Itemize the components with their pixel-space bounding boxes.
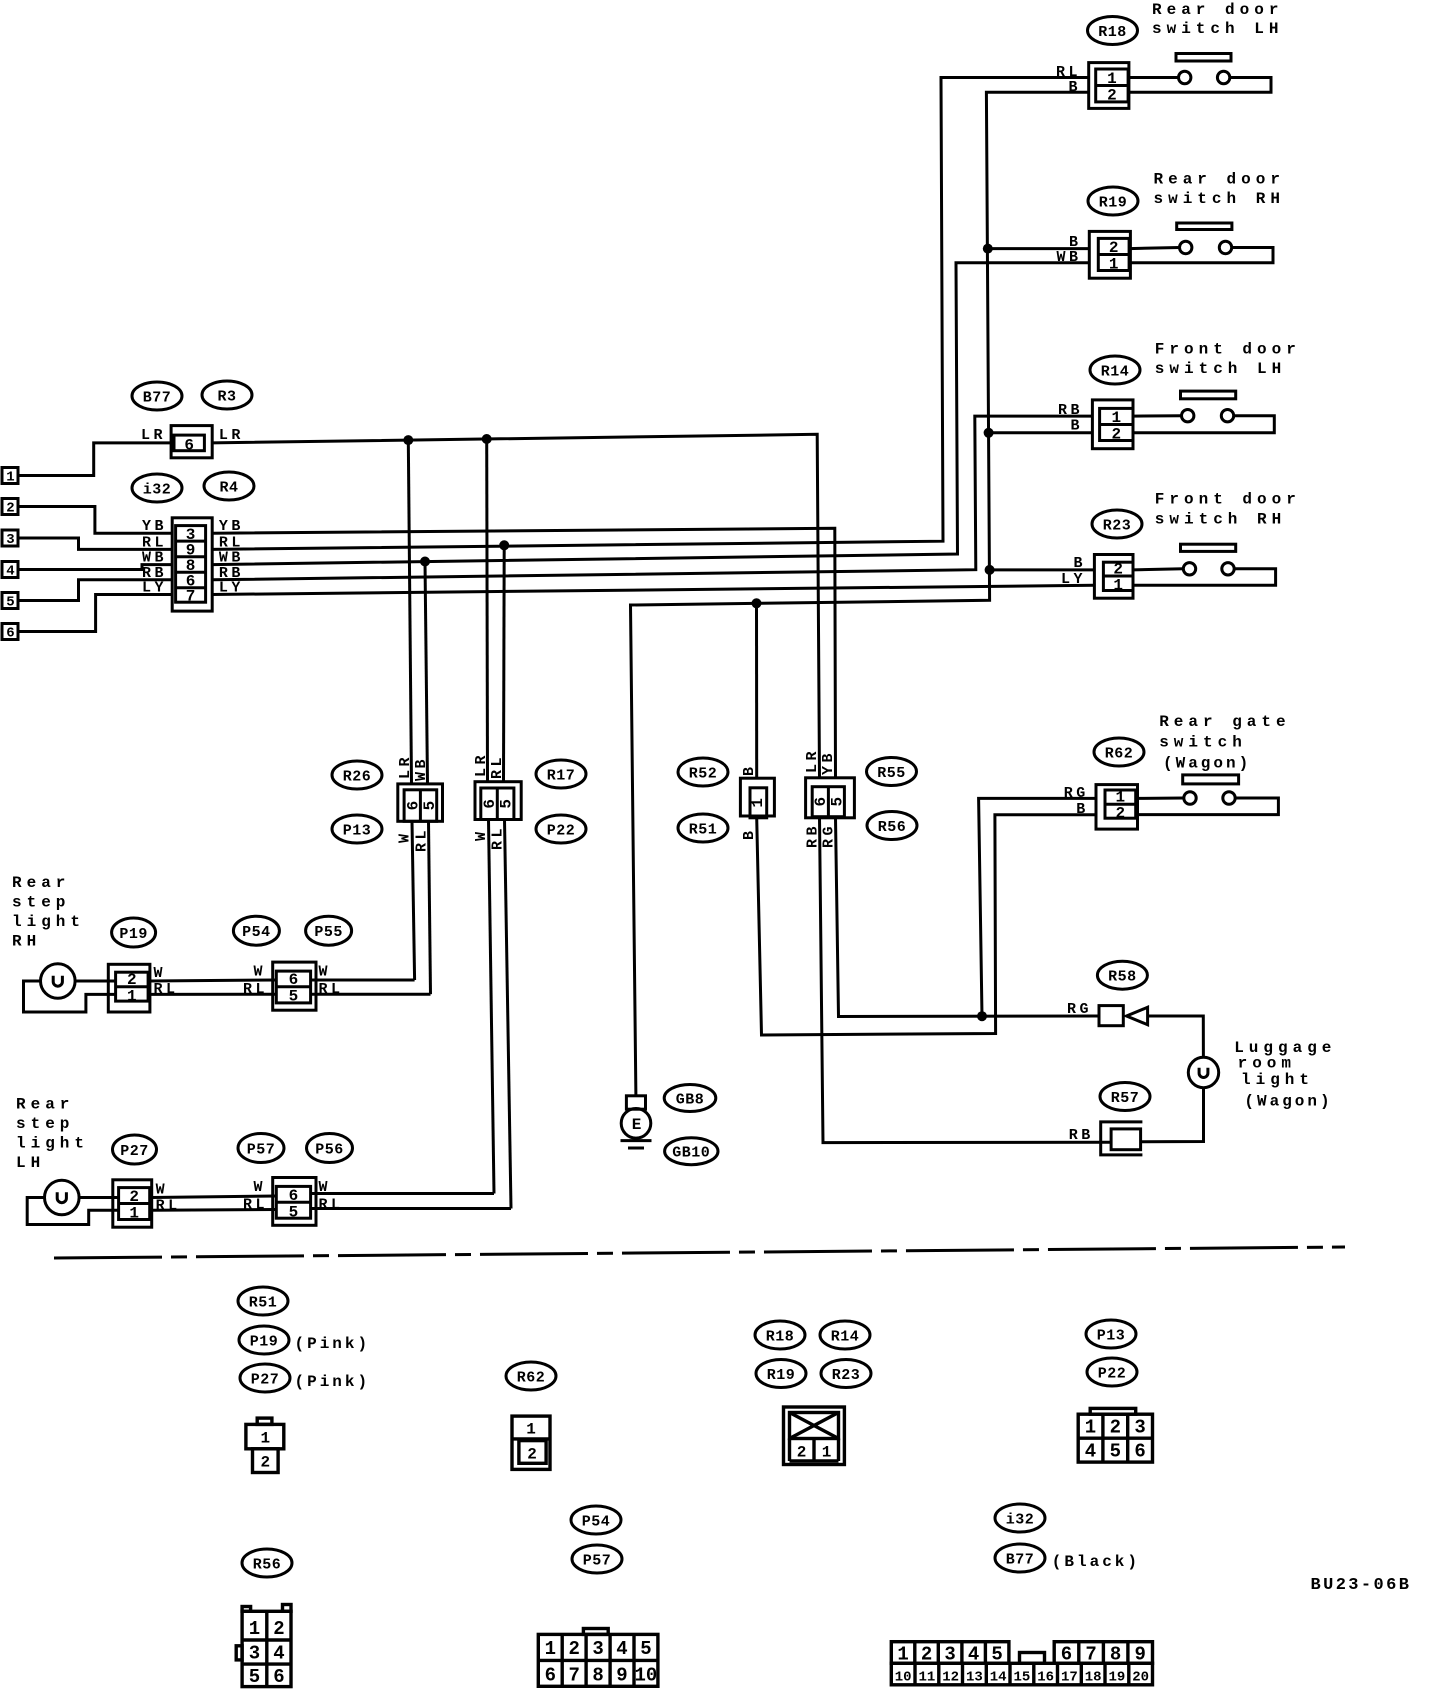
svg-text:R62: R62: [1105, 746, 1134, 763]
connector label oval i32 face label: [995, 1504, 1045, 1532]
connector label oval GB8: [664, 1085, 716, 1112]
connector label oval R18: [1088, 17, 1138, 45]
switch R19 contacts: [1129, 241, 1273, 262]
wire from R58 to luggage lamp: [1148, 1016, 1204, 1057]
connector face P13/P22 6-pin: [1078, 1408, 1152, 1462]
svg-text:R26: R26: [343, 769, 372, 786]
svg-text:R56: R56: [253, 1557, 282, 1574]
svg-text:6: 6: [405, 801, 423, 811]
inline connector i32/R4 body: [172, 518, 212, 611]
svg-text:15: 15: [1013, 1670, 1030, 1686]
svg-text:2: 2: [527, 1446, 537, 1464]
wire from luggage lamp to R57: [1141, 1088, 1204, 1142]
svg-text:1: 1: [260, 1430, 270, 1448]
svg-text:6: 6: [184, 437, 194, 455]
svg-text:5: 5: [640, 1638, 651, 1660]
svg-text:16: 16: [1037, 1670, 1054, 1686]
svg-text:5: 5: [249, 1666, 260, 1688]
svg-text:(Wagon): (Wagon): [1244, 1093, 1332, 1111]
svg-text:1: 1: [897, 1644, 908, 1666]
inline connector P57/P56 body: [273, 1178, 316, 1226]
svg-text:YB: YB: [820, 750, 837, 775]
connector label oval R57: [1100, 1083, 1150, 1111]
wire from box 2 to YB pin: [18, 507, 172, 534]
svg-text:18: 18: [1085, 1670, 1102, 1686]
svg-text:R58: R58: [1108, 969, 1137, 986]
wire B to R14: [989, 431, 1093, 434]
svg-text:P13: P13: [343, 823, 372, 840]
svg-text:RL: RL: [319, 1197, 344, 1214]
wire B branch down through R52/R51 to R62: [755, 603, 758, 778]
connector label oval P57 face label: [572, 1545, 622, 1573]
svg-text:3: 3: [1134, 1417, 1145, 1439]
connector label oval P22 face label: [1087, 1358, 1137, 1386]
connector face R62 2-pin: [512, 1416, 550, 1469]
svg-text:5: 5: [421, 801, 439, 811]
svg-text:9: 9: [1134, 1644, 1145, 1666]
svg-text:7: 7: [1085, 1644, 1096, 1666]
connector face R56 6-pin: [236, 1605, 291, 1687]
svg-text:1: 1: [1113, 577, 1123, 595]
svg-text:P27: P27: [120, 1143, 149, 1160]
wire B to R23: [990, 568, 1095, 571]
svg-text:R51: R51: [689, 822, 718, 839]
node 1 page reference box: [2, 468, 18, 486]
svg-text:RB: RB: [1058, 402, 1083, 419]
wire B to R19: [988, 247, 1090, 250]
svg-text:R55: R55: [877, 765, 906, 782]
junction B net at R14: [984, 428, 994, 438]
svg-text:R52: R52: [689, 766, 718, 783]
wire W P55 to P13 riser: [311, 979, 415, 982]
wire LR bus: [212, 434, 819, 778]
svg-text:6: 6: [481, 799, 499, 809]
svg-text:i32: i32: [143, 482, 172, 499]
svg-text:LR: LR: [473, 752, 490, 777]
title Luggage room light (Wagon): [1234, 1039, 1336, 1111]
svg-text:light: light: [16, 1135, 89, 1153]
svg-text:7: 7: [186, 588, 196, 606]
svg-text:R19: R19: [767, 1367, 796, 1384]
svg-text:P57: P57: [583, 1553, 612, 1570]
junction on RL bus to R17: [499, 540, 509, 550]
svg-text:R51: R51: [249, 1295, 278, 1312]
svg-text:P56: P56: [315, 1142, 344, 1159]
svg-text:3: 3: [592, 1638, 603, 1660]
svg-text:(Pink): (Pink): [295, 1335, 371, 1353]
svg-text:5: 5: [829, 797, 847, 807]
svg-text:19: 19: [1108, 1670, 1125, 1686]
connector face R51/P19/P27 2-pin: [246, 1418, 284, 1472]
inline connector B77/R3 body: [171, 426, 212, 458]
svg-text:1: 1: [526, 1421, 536, 1439]
svg-text:B: B: [1070, 418, 1083, 435]
svg-text:P57: P57: [247, 1142, 276, 1159]
svg-text:1: 1: [249, 1618, 260, 1640]
svg-text:RL: RL: [243, 1197, 268, 1214]
junction B net to R52 branch: [752, 598, 762, 608]
connector label oval P13: [332, 815, 382, 843]
svg-text:W: W: [473, 828, 490, 841]
svg-text:(Black): (Black): [1052, 1553, 1140, 1571]
connector face i32/B77 20-pin: [891, 1642, 1152, 1685]
connector label oval R56 face label: [242, 1549, 292, 1577]
svg-text:RG: RG: [1067, 1001, 1092, 1018]
svg-text:20: 20: [1132, 1670, 1149, 1686]
wire W P56 to P22 riser: [311, 1192, 494, 1195]
wire from box 1 to LR connector: [18, 443, 171, 476]
svg-text:R23: R23: [1103, 518, 1132, 535]
connector label oval i32: [132, 474, 182, 502]
connector label oval P55: [306, 916, 352, 945]
junction on WB bus to R26: [420, 557, 430, 567]
svg-text:E: E: [632, 1116, 642, 1134]
svg-text:13: 13: [966, 1670, 983, 1686]
connector label oval R17: [536, 760, 586, 788]
svg-text:LH: LH: [16, 1154, 45, 1172]
lamp rear step light LH: [45, 1180, 80, 1215]
svg-text:R14: R14: [1101, 364, 1130, 381]
svg-text:switch RH: switch RH: [1155, 511, 1286, 529]
connector face R18/R19/R14/R23: [784, 1407, 845, 1465]
svg-text:light: light: [12, 913, 85, 931]
title Rear step light RH: [12, 874, 85, 951]
connector label oval R19 face label: [756, 1360, 806, 1388]
svg-text:5: 5: [289, 1203, 299, 1221]
title Front door switch RH: [1155, 491, 1301, 529]
svg-text:2: 2: [1109, 239, 1119, 257]
connector label oval R56: [867, 812, 917, 840]
wire W from P13 down: [412, 821, 415, 980]
lamp luggage room light: [1188, 1057, 1218, 1087]
connector label oval R52: [678, 758, 728, 786]
svg-text:switch LH: switch LH: [1155, 360, 1286, 378]
node 3 page reference box: [2, 530, 18, 548]
svg-text:Rear: Rear: [12, 874, 70, 892]
inline connector R58 body: [1099, 1006, 1148, 1026]
wire from box 4 to WB pin: [18, 565, 172, 570]
svg-text:2: 2: [921, 1644, 932, 1666]
junction on LR bus to R26: [403, 435, 413, 445]
svg-text:Rear gate: Rear gate: [1159, 713, 1290, 731]
connector label oval P54: [233, 916, 279, 945]
connector label oval R14 face label: [820, 1321, 870, 1349]
wire lamp RH return loop to P19 pin 1: [24, 981, 116, 1012]
svg-text:5: 5: [1110, 1441, 1121, 1463]
ground terminal E: [621, 1109, 651, 1139]
wire RL P56 to P22 riser: [311, 1207, 511, 1210]
svg-text:B77: B77: [1006, 1552, 1035, 1569]
svg-text:W: W: [319, 964, 332, 981]
inline connector P54/P55 body: [273, 962, 316, 1010]
node 4 page reference box: [2, 562, 18, 580]
wire WB drop to R26: [425, 562, 428, 784]
svg-text:14: 14: [990, 1670, 1007, 1686]
wire RB bus: [212, 416, 1092, 580]
svg-text:6: 6: [289, 971, 299, 989]
wire RG from R62 to junction: [979, 798, 1096, 1016]
svg-text:4: 4: [968, 1644, 979, 1666]
svg-text:5: 5: [6, 595, 14, 611]
switch R23 actuator bar: [1181, 544, 1236, 551]
svg-text:1: 1: [1111, 409, 1121, 427]
svg-text:1: 1: [127, 988, 137, 1006]
svg-text:R19: R19: [1099, 195, 1128, 212]
switch R62 connector body: [1096, 785, 1138, 830]
svg-text:B: B: [1073, 555, 1086, 572]
switch R19 actuator bar: [1177, 223, 1232, 230]
connector label oval R18 face label: [755, 1321, 805, 1349]
node 2 page reference box: [2, 499, 18, 517]
junction RG net: [977, 1011, 987, 1021]
svg-text:RL: RL: [243, 981, 268, 998]
svg-text:RB: RB: [1069, 1127, 1094, 1144]
svg-text:2: 2: [127, 971, 137, 989]
connector label oval R14: [1090, 356, 1140, 384]
svg-text:1: 1: [129, 1205, 139, 1223]
title Rear step light LH: [16, 1096, 89, 1173]
svg-text:2: 2: [797, 1444, 807, 1462]
svg-text:6: 6: [812, 797, 830, 807]
svg-text:2: 2: [1115, 805, 1125, 823]
svg-text:P27: P27: [251, 1372, 280, 1389]
connector label oval R55: [867, 758, 917, 786]
connector face P54/P57 10-pin body: [538, 1629, 658, 1687]
svg-text:light: light: [1241, 1071, 1314, 1089]
switch R14 contacts: [1133, 410, 1274, 433]
wire LY bus: [212, 585, 1094, 594]
ground symbol strokes: [621, 1141, 652, 1148]
svg-text:R3: R3: [217, 389, 236, 406]
svg-text:R57: R57: [1111, 1090, 1140, 1107]
switch R62 contacts: [1136, 792, 1279, 815]
svg-text:R17: R17: [547, 768, 576, 785]
title Rear door switch RH: [1154, 171, 1285, 209]
wire lamp RH to P19 pin 2: [75, 980, 116, 983]
wire RL bus: [212, 78, 1088, 550]
inline connector R52/R51 body: [740, 778, 774, 818]
connector label oval R19: [1088, 187, 1138, 215]
wire from box 3 to RL pin: [18, 538, 172, 549]
lamp rear step light RH: [41, 964, 76, 999]
svg-text:11: 11: [918, 1670, 935, 1686]
switch R18 connector body: [1089, 63, 1129, 109]
connector label oval P27 face label: [240, 1364, 290, 1392]
svg-text:B77: B77: [143, 390, 172, 407]
svg-text:8: 8: [1110, 1644, 1121, 1666]
svg-text:2: 2: [1110, 1417, 1121, 1439]
svg-text:B: B: [1068, 79, 1081, 96]
node 5 page reference box: [2, 593, 18, 611]
inline connector R26/P13 body: [398, 784, 443, 821]
svg-text:6: 6: [1061, 1644, 1072, 1666]
wire WB bus: [212, 263, 1089, 565]
wire from box 6 to LY pin: [18, 595, 172, 632]
connector label oval P19 face label: [239, 1326, 289, 1354]
svg-text:5: 5: [991, 1644, 1002, 1666]
connector label oval GB10: [665, 1138, 718, 1165]
svg-text:P22: P22: [547, 823, 576, 840]
connector label oval B77: [132, 382, 182, 410]
wire LR drop to R26: [408, 440, 411, 784]
svg-text:2: 2: [1111, 426, 1121, 444]
svg-text:12: 12: [942, 1670, 959, 1686]
switch R18 contacts: [1128, 71, 1271, 92]
svg-text:LY: LY: [1061, 571, 1086, 588]
svg-text:RH: RH: [12, 933, 41, 951]
wire RL P27 to P57: [152, 1208, 277, 1212]
svg-text:P22: P22: [1098, 1366, 1127, 1383]
svg-text:1: 1: [1109, 256, 1119, 274]
svg-text:P54: P54: [242, 924, 271, 941]
node 6 page reference box: [2, 624, 18, 642]
wire RL P55 to P13 riser: [311, 993, 431, 996]
wire lamp LH return loop to P27 pin 1: [27, 1198, 118, 1225]
svg-text:R4: R4: [219, 480, 238, 497]
wire RB from R56 down to R57: [820, 818, 1112, 1143]
connector label oval P54 face label: [571, 1506, 621, 1534]
switch R23 connector body: [1094, 555, 1133, 599]
svg-text:17: 17: [1061, 1670, 1078, 1686]
svg-text:(Pink): (Pink): [295, 1373, 371, 1391]
svg-text:2: 2: [129, 1188, 139, 1206]
svg-text:RG: RG: [1064, 785, 1089, 802]
svg-text:9: 9: [616, 1665, 627, 1687]
svg-text:RL: RL: [156, 1198, 181, 1215]
connector label oval R3: [202, 381, 252, 409]
junction B net at R23: [985, 565, 995, 575]
svg-text:7: 7: [568, 1665, 579, 1687]
svg-text:3: 3: [249, 1643, 260, 1665]
svg-text:LR: LR: [804, 748, 821, 773]
connector label oval P56: [307, 1134, 353, 1163]
title Rear gate switch (Wagon): [1159, 713, 1290, 773]
svg-text:switch LH: switch LH: [1152, 20, 1283, 38]
svg-text:2: 2: [568, 1638, 579, 1660]
wire YB bus: [212, 528, 835, 778]
junction B net at R19: [983, 244, 993, 254]
svg-text:P19: P19: [119, 926, 148, 943]
connector label oval R62: [1094, 738, 1144, 766]
svg-text:RL: RL: [414, 827, 431, 852]
svg-text:1: 1: [6, 470, 14, 486]
svg-text:WB: WB: [1056, 249, 1081, 266]
svg-text:GB8: GB8: [676, 1092, 705, 1109]
connector label oval P57: [238, 1134, 284, 1163]
svg-text:W: W: [397, 830, 414, 843]
title Rear door switch LH: [1152, 1, 1283, 38]
svg-text:Front door: Front door: [1155, 491, 1301, 509]
svg-text:5: 5: [498, 799, 516, 809]
wire B vertical from R18: [631, 92, 1089, 1096]
svg-text:R18: R18: [1098, 24, 1127, 41]
connector label oval B77 face label: [995, 1544, 1045, 1572]
svg-text:6: 6: [6, 626, 14, 642]
svg-text:room: room: [1238, 1055, 1296, 1073]
wire lamp LH to P27 pin 2: [79, 1196, 119, 1199]
switch R18 actuator bar: [1176, 54, 1231, 62]
svg-text:P55: P55: [314, 924, 343, 941]
wire RL from P22 down: [505, 820, 512, 1209]
title Front door switch LH: [1155, 341, 1301, 379]
svg-text:4: 4: [1085, 1441, 1096, 1463]
junction on LR bus to R17: [482, 434, 492, 444]
svg-text:2: 2: [1107, 87, 1117, 105]
wire RL drop to R17: [502, 545, 506, 781]
svg-text:BU23-06B: BU23-06B: [1311, 1576, 1412, 1595]
svg-text:LY: LY: [142, 580, 167, 597]
connector label oval P13 face label: [1086, 1320, 1136, 1348]
svg-text:RL: RL: [490, 825, 507, 850]
svg-text:10: 10: [895, 1670, 912, 1686]
svg-text:LR: LR: [141, 427, 166, 444]
svg-text:1: 1: [545, 1638, 556, 1660]
inline connector P27 body: [113, 1180, 152, 1227]
switch R14 connector body: [1092, 400, 1133, 449]
svg-text:GB10: GB10: [672, 1145, 710, 1162]
connector label oval R23 face label: [821, 1360, 871, 1388]
svg-text:B: B: [741, 763, 758, 776]
svg-text:Front door: Front door: [1155, 341, 1301, 359]
wire RG from R56 down to R58 junction: [836, 818, 1100, 1017]
svg-text:B: B: [1076, 801, 1089, 818]
connector label oval R4: [204, 472, 254, 500]
connector label oval R23: [1092, 510, 1142, 538]
svg-text:5: 5: [289, 988, 299, 1006]
svg-text:R14: R14: [831, 1329, 860, 1346]
svg-text:2: 2: [273, 1618, 284, 1640]
svg-text:Rear door: Rear door: [1154, 171, 1285, 189]
svg-text:4: 4: [616, 1638, 627, 1660]
svg-text:3: 3: [6, 532, 14, 548]
connector label oval R51 face label: [238, 1287, 288, 1315]
svg-text:R23: R23: [832, 1367, 861, 1384]
wire LR drop to R17: [485, 439, 489, 782]
wire RL from P13 down: [429, 821, 431, 994]
svg-text:(Wagon): (Wagon): [1163, 755, 1251, 773]
svg-text:B: B: [741, 827, 758, 840]
svg-text:step: step: [16, 1115, 74, 1133]
svg-text:i32: i32: [1006, 1512, 1035, 1529]
svg-text:6: 6: [289, 1187, 299, 1205]
svg-text:2: 2: [6, 501, 14, 517]
svg-text:LR: LR: [397, 754, 414, 779]
svg-text:P54: P54: [582, 1514, 611, 1531]
svg-text:4: 4: [273, 1643, 284, 1665]
svg-text:6: 6: [545, 1665, 556, 1687]
inline connector R17/P22 body: [475, 782, 521, 820]
inline connector R55/R56 body: [806, 778, 855, 818]
connector label oval R62 face label: [506, 1362, 556, 1390]
connector label oval R26: [332, 761, 382, 789]
wire W P27 to P57: [152, 1196, 277, 1198]
svg-text:W: W: [253, 964, 266, 981]
svg-text:RL: RL: [489, 754, 506, 779]
switch R62 actuator bar: [1183, 775, 1239, 784]
svg-text:WB: WB: [413, 756, 430, 781]
svg-text:6: 6: [273, 1666, 284, 1688]
wire W P19 to P54: [150, 980, 276, 981]
connector label oval R58: [1097, 961, 1147, 989]
svg-text:switch: switch: [1159, 733, 1247, 751]
svg-text:R62: R62: [517, 1370, 546, 1387]
svg-text:Rear: Rear: [16, 1096, 74, 1114]
wire from box 5 to RB pin: [18, 580, 172, 601]
wire RL P19 to P54: [150, 993, 276, 996]
connector label oval P22: [536, 815, 586, 843]
svg-text:3: 3: [944, 1644, 955, 1666]
svg-text:switch RH: switch RH: [1154, 190, 1285, 208]
